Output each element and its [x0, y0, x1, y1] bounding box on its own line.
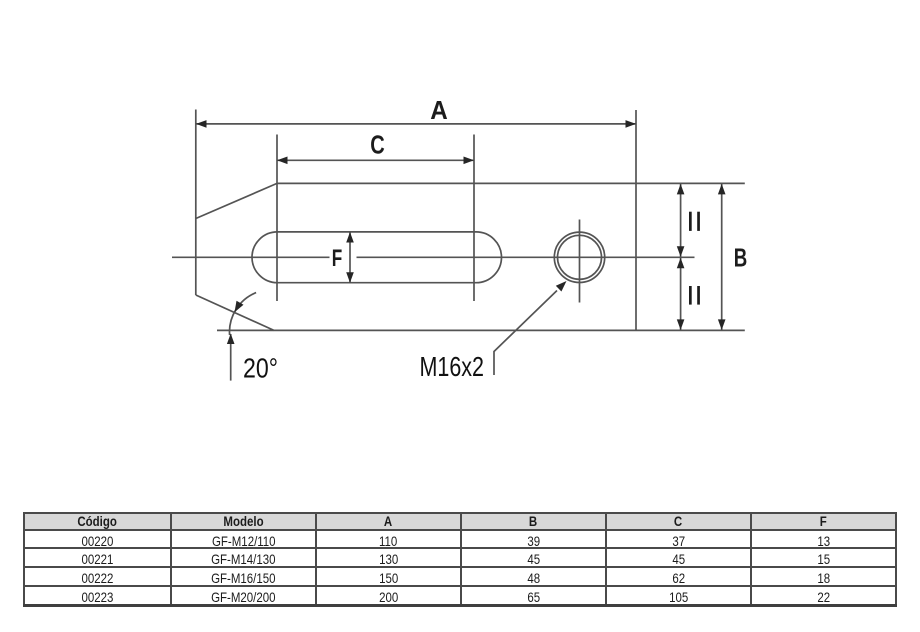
top edge (extended right for B dimension) — [277, 182, 745, 184]
svg-text:B: B — [734, 243, 748, 273]
dimension A arrowheads — [196, 120, 636, 128]
table header row — [24, 513, 896, 606]
lower slant edge — [196, 295, 274, 330]
angle arrow head — [227, 334, 235, 345]
M16x2 leader line — [494, 291, 557, 376]
specification table — [23, 512, 897, 607]
dimension C arrowheads — [277, 157, 474, 165]
label II upper — [689, 212, 700, 231]
dimension A line — [196, 123, 636, 125]
svg-text:M16x2: M16x2 — [420, 351, 485, 382]
upper slant edge — [196, 183, 277, 218]
row 00221 — [24, 548, 896, 567]
dimension II upper line — [680, 184, 682, 257]
hole vertical crosshair — [579, 220, 581, 303]
row 00222 — [24, 567, 896, 586]
angle 20 deg vertical arrow line — [230, 334, 232, 381]
bottom edge (extended left for angle, right for B dimension) — [217, 329, 745, 331]
row 00223 — [24, 586, 896, 606]
threaded hole inner circle — [558, 235, 602, 279]
row 00220 — [24, 530, 896, 548]
svg-text:A: A — [430, 95, 448, 125]
label II lower — [689, 286, 700, 305]
left edge / A left extension line — [195, 110, 197, 296]
dimension II arrowheads — [677, 184, 685, 330]
threaded hole outer circle — [554, 232, 604, 282]
technical drawing of clamp — [0, 0, 920, 500]
svg-text:20°: 20° — [243, 353, 278, 384]
angle arc — [229, 293, 256, 335]
dimension F arrow line — [349, 232, 351, 283]
svg-text:F: F — [332, 245, 343, 272]
slot (stadium shape) — [252, 232, 502, 283]
svg-text:C: C — [370, 130, 385, 160]
dimension C line — [277, 159, 474, 161]
part outline — [196, 110, 745, 331]
right edge / A right extension line — [635, 110, 637, 330]
M16x2 leader arrowhead — [556, 281, 567, 292]
dimension B arrowheads — [718, 184, 726, 330]
angle arc arrowhead — [235, 301, 244, 313]
dimension F arrowheads — [346, 232, 354, 283]
horizontal centerline (broken around F label) — [172, 256, 695, 258]
dimension C extension lines — [277, 135, 474, 302]
dimension II lower line — [680, 258, 682, 330]
dimension B line — [721, 184, 723, 330]
